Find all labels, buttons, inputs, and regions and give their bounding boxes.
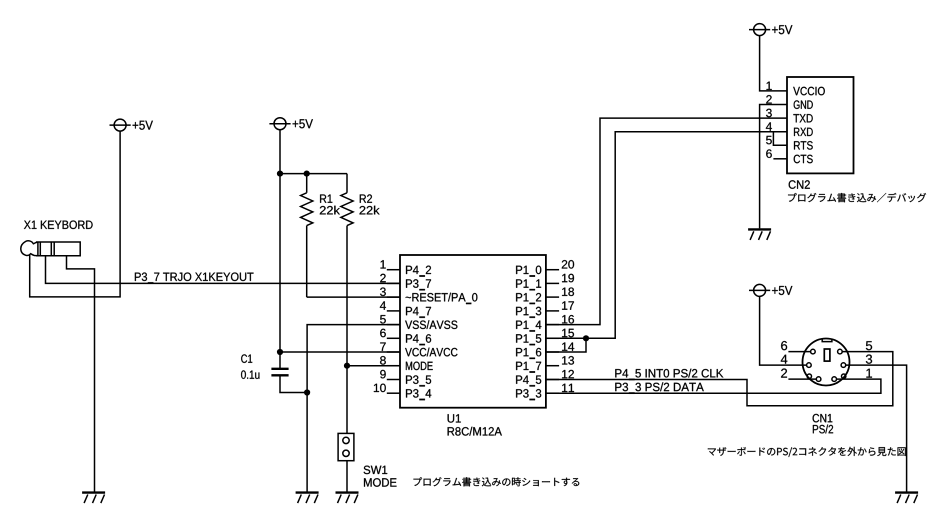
pin label P4_7 <box>406 307 431 318</box>
pin label VCC/AVCC <box>405 348 457 357</box>
junction MODE <box>344 363 350 369</box>
wire CN1 pin6 stub <box>788 351 810 353</box>
pin 14 stub <box>546 351 559 353</box>
wire TXD: CN2 pin3 to U1 pin16 <box>546 118 787 325</box>
junction R1 top <box>304 171 310 177</box>
wire CN2 pin5 RTS tie to RXD <box>773 132 787 146</box>
switch SW1 MODE <box>338 433 354 491</box>
ground (CN1 pin3) <box>895 493 918 504</box>
wire jack ring to P3_7 <box>46 256 401 284</box>
pin label MODE <box>406 362 433 371</box>
connector CN2 box <box>787 77 854 173</box>
U1 reference <box>448 414 461 422</box>
pin label P4_5 <box>516 376 541 387</box>
pin label P4_2 <box>406 266 431 277</box>
junction VCC <box>277 349 283 355</box>
pin 10 stub <box>387 392 400 394</box>
pin 4 stub <box>387 310 400 312</box>
pin label P1_2 <box>516 293 541 304</box>
pin label P1_3 <box>516 307 541 318</box>
pin 5 stub <box>387 324 400 326</box>
capacitor C1 0.1u <box>241 354 289 379</box>
wire jack sleeve to ground <box>67 256 95 492</box>
wire jack tip to +5V A <box>30 131 120 297</box>
ground (CN2 GND) <box>748 229 771 240</box>
power +5V A <box>110 119 153 131</box>
wire R1 bottom to ~RESET pin 3 <box>307 296 400 298</box>
connector X1 KEYBORD audio jack <box>21 221 93 256</box>
pin 7 stub <box>387 351 400 353</box>
wire CN2 pin6 CTS stub <box>773 158 787 160</box>
wire MODE pin8 to R2 bottom <box>347 365 400 367</box>
pin 17 stub <box>546 310 559 312</box>
wire +5V B rail down to C1 <box>279 130 281 369</box>
wire C1 bottom to VSS line <box>280 375 307 392</box>
note: short for programming <box>414 477 580 486</box>
pin label P1_6 <box>516 348 541 359</box>
junction P1_5/P1_6 <box>583 335 589 341</box>
power +5V D <box>749 284 792 296</box>
pin 1 stub <box>387 269 400 271</box>
pin 9 stub <box>387 379 400 381</box>
label P4_5 INT0 PS/2 CLK <box>615 369 723 380</box>
power +5V C <box>749 24 792 36</box>
resistor R2 22k <box>341 174 353 434</box>
pin label P3_7 <box>406 279 431 290</box>
CN2 pin numbers <box>767 82 772 90</box>
pin label P3_5 <box>406 375 431 386</box>
connector CN1 PS/2 mini-DIN <box>803 339 850 386</box>
IC U1 R8C/M12A <box>400 255 546 408</box>
pin label P4_6 <box>406 334 431 345</box>
ground (jack sleeve) <box>82 493 105 504</box>
ground (VSS) <box>296 493 319 504</box>
wire rail to R1 R2 tops <box>280 173 347 175</box>
wire U1 pin14 tie to pin15 <box>546 338 586 352</box>
wire CN1 pin2 stub <box>788 378 816 380</box>
junction C1 bottom <box>304 389 310 395</box>
pin 15 stub <box>546 337 559 339</box>
pin 3 stub <box>387 296 400 298</box>
pin label ~RESET/PA_0 <box>406 293 478 304</box>
CN1 pin numbers <box>781 341 787 350</box>
pin label VSS/AVSS <box>405 320 457 329</box>
pin 18 stub <box>546 296 559 298</box>
pin 11 stub <box>546 392 559 394</box>
CN1 reference <box>813 414 833 423</box>
wire CLK: U1 pin12 to CN1 pin5 <box>546 352 893 406</box>
pin 12 stub <box>546 379 559 381</box>
pin 2 stub <box>387 282 400 284</box>
pin 6 stub <box>387 337 400 339</box>
wire VSS pin5 down to ground <box>307 325 400 492</box>
resistor R1 22k <box>301 174 313 298</box>
wire CN1 pin3 to ground <box>846 365 907 492</box>
wire DATA: U1 pin11 to CN1 pin1 <box>546 379 881 393</box>
pin label P1_5 <box>516 334 541 345</box>
label P3_3 PS/2 DATA <box>615 382 704 393</box>
pin label P3_4 <box>406 389 431 400</box>
ground (SW1) <box>336 493 359 504</box>
junction rail left <box>277 171 283 177</box>
wire +5V C to CN2 pin1 <box>760 36 787 91</box>
pin 19 stub <box>546 282 559 284</box>
pin label P3_3 <box>516 389 541 400</box>
pin 8 stub <box>387 365 400 367</box>
pin label P1_1 <box>516 279 541 290</box>
wire +5V D to CN1 pin4 <box>760 296 807 365</box>
wire RXD: CN2 pin4 to U1 pin15 <box>546 132 787 339</box>
label P3_7 TRJO X1KEYOUT <box>135 273 254 284</box>
pin 20 stub <box>546 269 559 271</box>
pin 13 stub <box>546 365 559 367</box>
pin label P1_4 <box>516 321 541 332</box>
wire CN2 pin2 GND down to ground <box>760 105 787 229</box>
pin 16 stub <box>546 324 559 326</box>
CN2 reference <box>789 180 810 189</box>
pin label P1_0 <box>516 266 541 277</box>
wire VCC pin7 to +5V rail <box>280 351 400 353</box>
pin label P1_7 <box>516 362 541 373</box>
CN2 pin labels <box>793 87 825 96</box>
power +5V B <box>269 118 313 130</box>
CN1 note: PS/2 connector seen from outside <box>708 447 906 457</box>
CN2 description program write/debug <box>788 193 926 202</box>
